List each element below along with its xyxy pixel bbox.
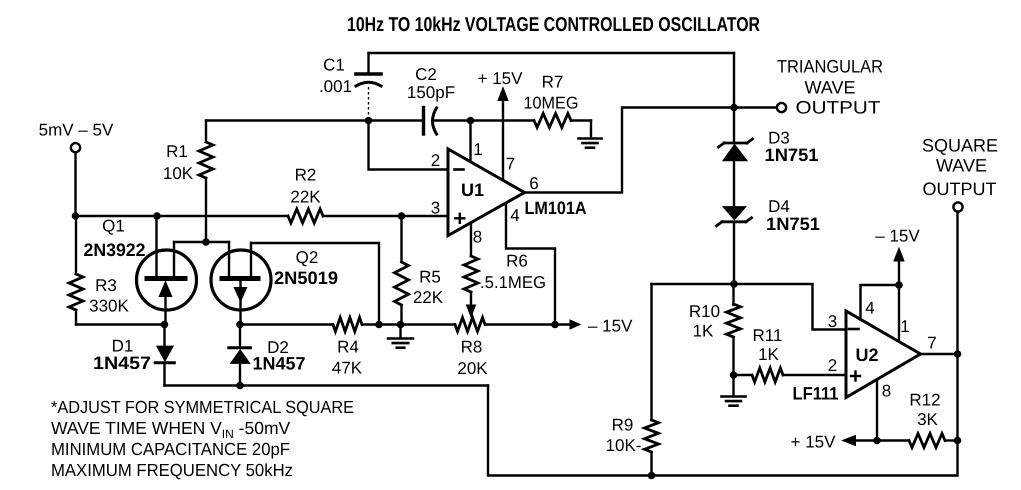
pin 8 label U1 [473, 228, 482, 247]
svg-text:10Hz TO 10kHz VOLTAGE CONTROLL: 10Hz TO 10kHz VOLTAGE CONTROLLED OSCILLA… [347, 14, 760, 36]
svg-text:8: 8 [882, 382, 891, 401]
svg-text:U2: U2 [855, 345, 878, 365]
pin 7 label U1 [506, 155, 515, 174]
svg-text:1N751: 1N751 [765, 145, 819, 165]
svg-text:1: 1 [900, 317, 909, 336]
resistor R4 [240, 318, 363, 378]
svg-text:7: 7 [506, 155, 515, 174]
svg-text:1K: 1K [758, 345, 779, 364]
junction Q2 drain node [375, 321, 383, 329]
svg-text:47K: 47K [332, 359, 363, 378]
wire pin3 net left [76, 215, 289, 217]
svg-text:2N3922: 2N3922 [84, 240, 146, 260]
svg-text:R5: R5 [419, 268, 441, 287]
junction pin1 node [467, 117, 475, 125]
power -15V arrow (U2) [875, 227, 920, 286]
svg-text:4: 4 [510, 206, 519, 225]
svg-text:C1: C1 [323, 56, 345, 75]
resistor R6 [464, 223, 546, 318]
junction -15V node U2 [895, 281, 903, 289]
ground under R5 [388, 325, 413, 348]
junction C1 bottom [365, 117, 373, 125]
pin 1 label U2 [900, 317, 909, 336]
junction zener bottom node [730, 280, 738, 288]
resistor R7 [524, 73, 579, 128]
wire top rail [369, 52, 735, 54]
svg-text:U1: U1 [461, 180, 484, 200]
ground under R10 [722, 375, 746, 406]
svg-text:R3: R3 [95, 276, 117, 295]
transistor Q2 [211, 242, 338, 324]
junction R9 bottom [648, 472, 656, 480]
svg-text:– 15V: – 15V [588, 317, 633, 336]
svg-text:OUTPUT: OUTPUT [923, 179, 997, 199]
wire D3 branch top [733, 53, 735, 143]
wire between D3 D4 [733, 161, 735, 208]
junction R5 bottom / ground [397, 321, 405, 329]
wire pin3 net right [323, 215, 448, 217]
svg-text:C2: C2 [415, 65, 437, 84]
wire U2 pin7 output [921, 353, 958, 355]
svg-text:*ADJUST FOR SYMMETRICAL SQUARE: *ADJUST FOR SYMMETRICAL SQUARE [51, 397, 354, 417]
svg-text:4: 4 [865, 299, 874, 318]
svg-text:1N457: 1N457 [253, 354, 306, 374]
node triangular output terminal [777, 103, 786, 112]
wire U1 pin1 [469, 121, 471, 162]
zener D3 [719, 129, 819, 166]
pin 2 label U1 [431, 151, 440, 170]
svg-text:10K: 10K [163, 164, 194, 183]
svg-text:OUTPUT: OUTPUT [796, 98, 881, 118]
wire D4 to node [733, 223, 735, 285]
resistor R2 [288, 166, 323, 224]
svg-text:MAXIMUM FREQUENCY 50kHz: MAXIMUM FREQUENCY 50kHz [51, 460, 293, 480]
junction Q1 gate / D1 anode [161, 321, 169, 329]
junction Q1 source lead [153, 212, 161, 220]
wire input vertical [74, 153, 76, 217]
wire to R5 ground node [379, 323, 401, 325]
svg-text:20K: 20K [457, 359, 488, 378]
zener D4 [717, 197, 821, 234]
capacitor C2 [407, 65, 471, 134]
junction U2 output node [954, 350, 962, 358]
wire square feedback bottom [488, 386, 958, 476]
resistor R11 [734, 326, 847, 382]
junction R12 right node [954, 437, 962, 445]
svg-text:TRIANGULAR: TRIANGULAR [777, 57, 883, 77]
wire U2 pin1 [898, 285, 900, 342]
pin 2 label U2 [828, 356, 837, 375]
svg-text:LF111: LF111 [793, 384, 839, 404]
label square wave output [922, 136, 998, 200]
junction pin8 / +15V node [873, 437, 881, 445]
svg-text:10MEG: 10MEG [524, 94, 579, 113]
svg-text:MINIMUM CAPACITANCE 20pF: MINIMUM CAPACITANCE 20pF [51, 439, 290, 459]
svg-text:3: 3 [828, 312, 837, 331]
svg-text:150pF: 150pF [407, 83, 455, 102]
wire square output vertical [956, 212, 958, 354]
svg-text:22K: 22K [290, 188, 321, 207]
junction R10 bottom / R11 [730, 371, 738, 379]
resistor R9 [606, 284, 659, 476]
svg-text:R8: R8 [461, 338, 483, 357]
svg-text:WAVE TIME WHEN VIN -50mV: WAVE TIME WHEN VIN -50mV [51, 418, 291, 441]
svg-text:3K: 3K [917, 410, 938, 429]
ground after R7 [579, 121, 602, 148]
svg-text:22K: 22K [413, 288, 444, 307]
svg-text:Q1: Q1 [102, 217, 125, 236]
resistor R12 [877, 391, 958, 448]
wire diode bottoms [165, 384, 489, 386]
wire U1 pin2 [369, 121, 449, 170]
pin 3 label U2 [828, 312, 837, 331]
pin 7 label U2 [927, 334, 936, 353]
svg-text:R11: R11 [753, 326, 783, 345]
node VIN input terminal [39, 121, 114, 153]
pin 4 label U1 [510, 206, 519, 225]
svg-text:330K: 330K [89, 297, 129, 316]
svg-text:WAVE: WAVE [936, 156, 987, 176]
capacitor C1 [319, 53, 381, 117]
junction triangular output node [730, 104, 738, 112]
wire U1 pin6 output [525, 108, 735, 193]
pin 1 label U1 [473, 140, 482, 159]
svg-text:R4: R4 [337, 338, 359, 357]
power +15V arrow (U1 pin7) [478, 69, 524, 180]
junction D2 anode / feedback [236, 382, 244, 390]
pin 3 label U1 [431, 199, 440, 218]
svg-text:2: 2 [431, 151, 440, 170]
junction Q2 gate / D2 cathode [236, 321, 244, 329]
resistor R3 [69, 216, 130, 325]
wire node to R9 and U2 pin3 [652, 284, 847, 330]
title [347, 14, 760, 36]
svg-text:2: 2 [828, 356, 837, 375]
svg-text:R9: R9 [612, 416, 634, 435]
comparator U2 [793, 311, 921, 404]
junction R1 bottom / drain rail [202, 238, 210, 246]
svg-text:LM101A: LM101A [525, 198, 587, 218]
wire mid to R7 [471, 119, 535, 121]
svg-text:R10: R10 [689, 302, 720, 321]
svg-text:1N751: 1N751 [766, 214, 820, 234]
label triangular wave output [777, 57, 883, 118]
svg-text:R1: R1 [166, 142, 188, 161]
resistor R10 [689, 284, 741, 375]
pin 8 label U2 [882, 382, 891, 401]
wire U2 pin4 [861, 285, 900, 320]
wire R8 left [401, 323, 456, 325]
wire Q2 drain to R4 node [251, 243, 379, 325]
wire mid to C2 [369, 119, 424, 121]
svg-text:Q2: Q2 [296, 248, 319, 267]
svg-text:1: 1 [473, 140, 482, 159]
svg-text:+ 15V: + 15V [791, 433, 837, 452]
wire R3 to D1 node [76, 323, 165, 325]
resistor R5 [395, 216, 444, 325]
svg-text:1K: 1K [693, 322, 714, 341]
wire R8 right [485, 323, 555, 325]
wire U2 output to R12 node [956, 354, 958, 441]
svg-text:.001: .001 [319, 77, 352, 96]
svg-text:R6: R6 [506, 252, 528, 271]
svg-text:+ 15V: + 15V [478, 69, 524, 88]
op-amp U1 [448, 149, 587, 236]
junction R5 top [398, 212, 406, 220]
svg-text:8: 8 [473, 228, 482, 247]
power -15V arrow (mid) [555, 317, 633, 336]
transistor Q1 [84, 216, 197, 324]
node square output terminal [953, 202, 962, 211]
svg-text:R2: R2 [295, 166, 317, 185]
svg-text:6: 6 [529, 174, 538, 193]
diode D1 [93, 325, 174, 386]
wire mid left [206, 119, 369, 121]
junction pin4 / -15V node [551, 321, 559, 329]
diode D2 [229, 325, 306, 386]
wire U2 pin8 [876, 380, 878, 441]
pin 6 label U1 [529, 174, 538, 193]
svg-text:.5.1MEG: .5.1MEG [480, 273, 546, 292]
note annotation [51, 397, 354, 480]
junction input/pin3 net [72, 212, 80, 220]
resistor R8 (pot) [455, 318, 488, 379]
svg-text:7: 7 [927, 334, 936, 353]
wire to triangular terminal [734, 106, 777, 108]
wire U1 pin4 [506, 203, 555, 325]
wire drain rail [174, 241, 229, 243]
svg-text:R7: R7 [542, 73, 564, 92]
wire R7 to ground [571, 119, 591, 121]
svg-text:WAVE: WAVE [804, 78, 855, 98]
svg-text:R12: R12 [909, 391, 940, 410]
svg-text:1N457: 1N457 [93, 353, 151, 373]
resistor R1 [163, 121, 213, 243]
svg-text:– 15V: – 15V [875, 227, 920, 246]
svg-text:5mV – 5V: 5mV – 5V [39, 121, 114, 140]
svg-text:2N5019: 2N5019 [274, 268, 338, 288]
wire R4 to junction [362, 323, 379, 325]
svg-text:3: 3 [431, 199, 440, 218]
pin 4 label U2 [865, 299, 874, 318]
svg-text:SQUARE: SQUARE [922, 136, 998, 156]
power +15V arrow (U2 pin8) [791, 433, 877, 452]
svg-text:10K-: 10K- [606, 436, 642, 455]
